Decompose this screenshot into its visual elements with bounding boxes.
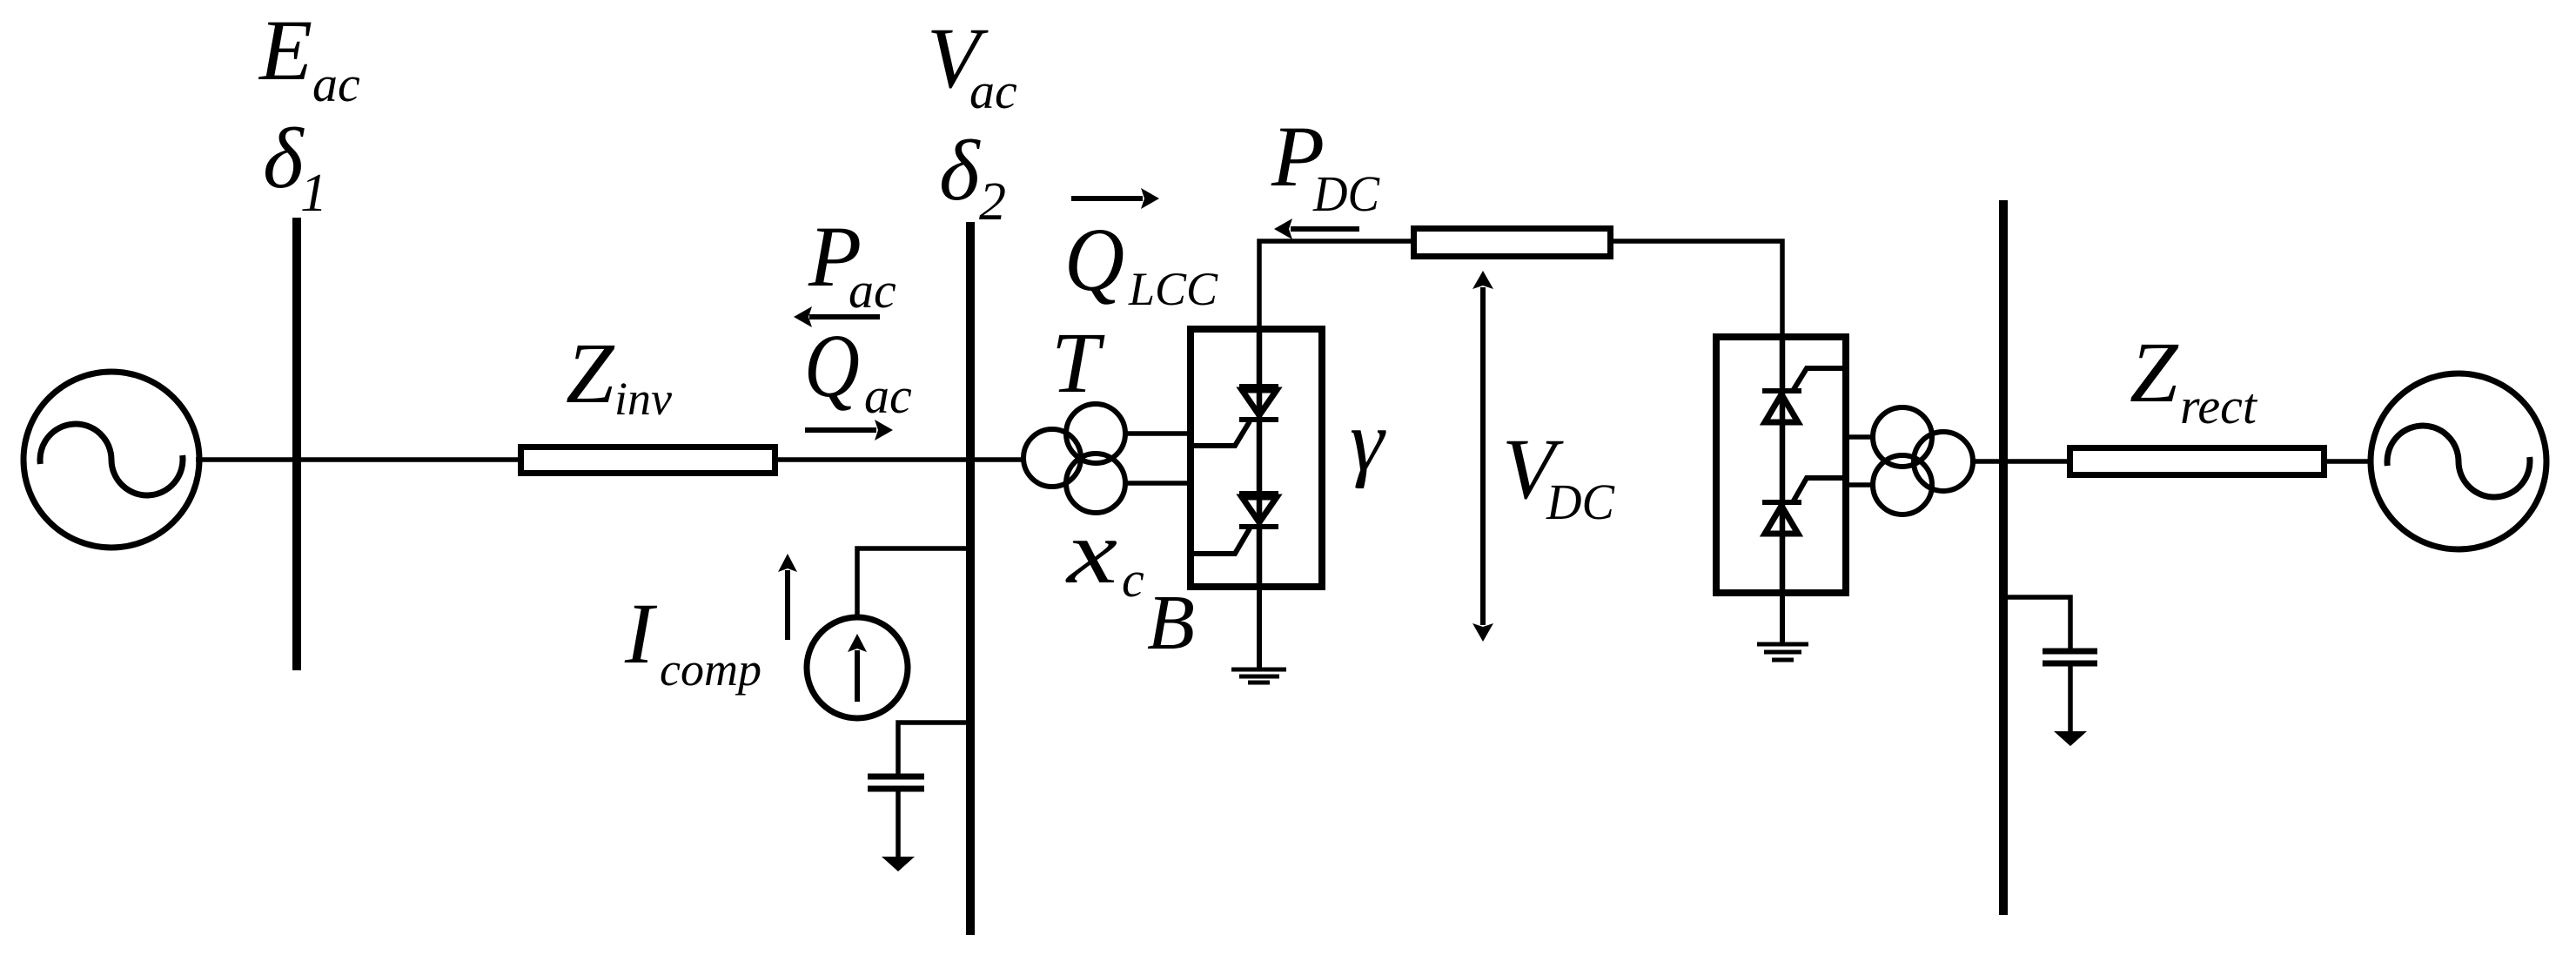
svg-text:ac: ac <box>312 56 360 112</box>
wire bus 2 to shunt capacitor C1 <box>898 723 970 775</box>
label Zinv <box>566 325 672 425</box>
ground (left converter) <box>1231 669 1286 683</box>
svg-text:γ: γ <box>1350 393 1386 489</box>
capacitor C1 plates <box>868 777 924 789</box>
label Q_ac <box>804 315 912 424</box>
thyristor V1 (upper, pointing down) <box>1192 387 1278 446</box>
arrow P_DC (left) <box>1274 219 1359 239</box>
AC source G1 (left generator circle) <box>23 372 199 548</box>
label delta_2 <box>939 122 1006 232</box>
svg-text:δ: δ <box>263 110 305 206</box>
svg-text:Q: Q <box>1064 209 1124 310</box>
resistor DC line (impedance box) <box>1414 229 1611 257</box>
svg-text:1: 1 <box>300 164 327 223</box>
thyristor V3 (upper, pointing up) <box>1762 368 1848 422</box>
svg-text:ac: ac <box>969 63 1017 119</box>
label V_DC <box>1502 420 1615 530</box>
bus bar 3 (rectifier AC bus) <box>1999 200 2008 915</box>
wire DC line to rectifier converter <box>1613 241 1782 339</box>
svg-text:Z: Z <box>2130 324 2179 420</box>
wire rectifier to transformer lower <box>1846 482 1873 488</box>
down arrow under C1 <box>882 857 915 871</box>
arrow Q_LCC (right) <box>1071 188 1159 209</box>
svg-text:DC: DC <box>1546 474 1615 530</box>
svg-text:ac: ac <box>849 262 896 319</box>
label P_ac <box>808 208 896 319</box>
wire bus 3 to shunt capacitor C2 <box>2003 597 2070 649</box>
wire C1 to arrow <box>896 789 901 858</box>
wire transformer to Zrect <box>1973 459 2067 464</box>
label V_ac <box>927 10 1017 119</box>
svg-text:x: x <box>1064 502 1117 602</box>
wire rectifier to ground <box>1780 593 1785 644</box>
label delta_1 <box>263 110 327 223</box>
bus bar 1 (E_ac) <box>292 218 301 670</box>
wire Zinv to transformer T <box>778 457 1024 462</box>
thyristor V2 (lower, pointing down) <box>1192 494 1278 554</box>
svg-text:I: I <box>624 585 658 682</box>
transformer T (three windings) <box>1023 404 1125 513</box>
svg-text:comp: comp <box>660 643 761 696</box>
svg-text:ac: ac <box>864 367 912 424</box>
arrow V_DC (double headed) <box>1472 271 1493 642</box>
wire C2 to arrow <box>2068 663 2073 733</box>
svg-text:B: B <box>1147 580 1195 666</box>
wire converter B top to DC line <box>1259 241 1413 329</box>
arrow Q_ac (right) <box>805 420 893 441</box>
label E_ac <box>258 2 360 112</box>
resistor Zinv (impedance box) <box>521 447 775 474</box>
sine symbol inside G1 <box>40 424 183 495</box>
wire Zrect to G2 <box>2327 459 2372 464</box>
converter box (rectifier) <box>1716 337 1846 593</box>
wire T lower to converter B <box>1124 481 1191 486</box>
label I_comp <box>624 585 761 696</box>
ground (rectifier) <box>1757 644 1808 660</box>
converter box B (inverter LCC) <box>1191 329 1322 587</box>
svg-text:2: 2 <box>979 172 1006 232</box>
current source I_comp circle <box>807 617 908 718</box>
svg-text:T: T <box>1051 314 1105 411</box>
rectifier internal bus <box>1780 337 1786 593</box>
bus bar 2 (V_ac) <box>966 222 975 935</box>
wire current source top to bus 2 <box>857 548 970 617</box>
thyristor V4 (lower, pointing up) <box>1762 478 1848 534</box>
label Zrect <box>2130 324 2258 434</box>
transformer (rectifier side, three windings) <box>1873 407 1973 514</box>
svg-text:c: c <box>1122 551 1144 608</box>
resistor Zrect (impedance box) <box>2070 448 2324 475</box>
converter B internal bus <box>1257 329 1263 587</box>
label P_DC <box>1271 108 1380 222</box>
svg-text:inv: inv <box>614 373 672 425</box>
svg-text:LCC: LCC <box>1128 263 1218 315</box>
AC source G2 (right generator circle) <box>2371 373 2546 549</box>
svg-text:E: E <box>258 2 312 98</box>
svg-text:Z: Z <box>566 325 615 421</box>
wire converter B to ground <box>1257 587 1262 669</box>
down arrow under C2 <box>2054 731 2087 746</box>
label Q_LCC <box>1064 209 1218 315</box>
wire T upper to converter B <box>1124 431 1191 436</box>
wire rectifier to transformer upper <box>1846 434 1873 440</box>
svg-text:rect: rect <box>2180 378 2258 434</box>
svg-text:δ: δ <box>939 122 981 219</box>
label x_c <box>1064 502 1144 608</box>
svg-text:DC: DC <box>1312 165 1380 222</box>
sine symbol inside G2 <box>2387 426 2530 497</box>
svg-text:Q: Q <box>804 315 860 415</box>
arrow inside current source <box>848 634 867 702</box>
wire G1 to Zinv <box>196 457 522 462</box>
capacitor C2 plates <box>2043 651 2097 663</box>
arrow P_ac (left) <box>794 306 880 327</box>
arrow beside I_comp <box>778 554 797 640</box>
